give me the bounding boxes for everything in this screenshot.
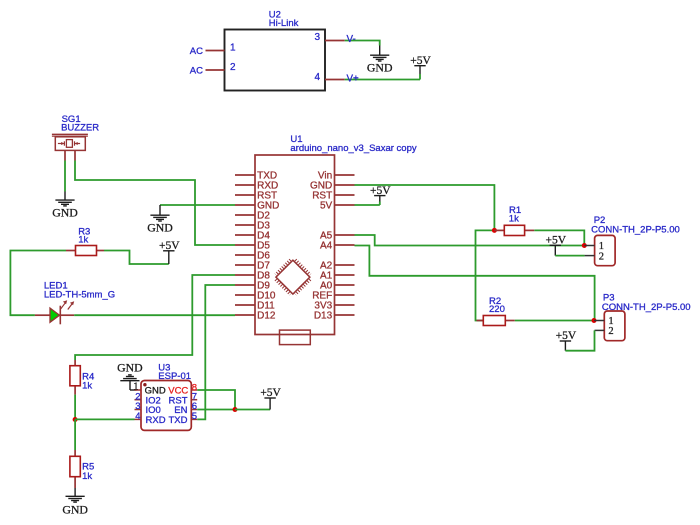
svg-text:TXD: TXD xyxy=(169,415,188,426)
module U3 designator xyxy=(158,362,191,382)
wire: U1 A5 to P2 pin1 xyxy=(355,235,585,246)
U1 right pin A0 xyxy=(320,281,355,292)
svg-text:+5V: +5V xyxy=(370,185,391,197)
resistor R2 xyxy=(477,316,515,326)
resistor R1 value labels xyxy=(509,205,521,224)
U1 left pin D7 xyxy=(235,261,270,272)
power +5V (U3) xyxy=(260,387,281,409)
U1 left pin RST xyxy=(235,191,277,202)
wire net V+: U2 pin4 to +5V xyxy=(345,79,420,81)
net label AC (pin 2) xyxy=(190,66,203,77)
U3 pin-1 marker xyxy=(143,383,146,386)
wire: node to +5V symbol xyxy=(235,409,270,411)
wire: node branch to R2 (vertical rail) xyxy=(476,230,495,320)
svg-text:CONN-TH_2P-P5.00: CONN-TH_2P-P5.00 xyxy=(591,225,680,236)
svg-text:1: 1 xyxy=(230,43,236,54)
P3 pin 1 xyxy=(594,316,614,327)
wire: R1 to P2 pin1 xyxy=(534,230,584,245)
U1 right pin GND xyxy=(310,181,355,192)
MCU U1 body xyxy=(255,155,335,335)
U1 left pin RXD xyxy=(235,181,278,192)
resistor R4 xyxy=(70,360,80,395)
svg-text:220: 220 xyxy=(489,304,505,315)
connector P3 body xyxy=(604,311,625,341)
svg-text:+5V: +5V xyxy=(159,240,180,252)
MCU U1 designator xyxy=(290,134,416,154)
U1 right pin RST xyxy=(312,191,354,202)
P2 pin 1 xyxy=(584,241,604,252)
wire: LED1 cathode to U1 D12 xyxy=(74,314,235,316)
wire: U3 EN to +5V node xyxy=(197,409,235,411)
junction node at R1 left xyxy=(492,228,497,233)
U3 pin 5 TXD xyxy=(169,411,198,426)
U1 left pin D9 xyxy=(235,281,270,292)
power +5V (P3) xyxy=(556,330,577,351)
svg-text:GND: GND xyxy=(147,221,173,235)
P3 pin 2 xyxy=(595,326,614,337)
U3 pin 8 VCC xyxy=(168,382,197,396)
buzzer SG1 symbol xyxy=(52,134,88,150)
U2 pin 1 (AC input) xyxy=(206,43,237,54)
connector P2 designator xyxy=(591,215,680,236)
wire: U1 D9 to U3 TXD xyxy=(197,285,235,419)
U2 designator label xyxy=(269,10,299,29)
U1 left pin D3 xyxy=(235,221,270,232)
svg-text:+5V: +5V xyxy=(410,55,431,67)
buzzer SG1 pin 2 xyxy=(74,150,76,160)
svg-text:D13: D13 xyxy=(314,311,333,322)
P2 pin 2 xyxy=(585,251,604,262)
U3 pin 2 IO2 xyxy=(135,391,161,406)
module U3 body xyxy=(141,381,191,431)
resistor R3 value labels xyxy=(78,227,90,246)
svg-text:GND: GND xyxy=(117,361,143,375)
U3 pin 4 RXD xyxy=(135,411,166,426)
U1 left pin D11 xyxy=(235,301,275,312)
svg-text:GND: GND xyxy=(52,206,78,220)
U1 right pin D13 xyxy=(314,311,355,322)
resistor R3 xyxy=(66,246,104,256)
junction node at P3 pin1 xyxy=(592,318,597,323)
svg-text:2: 2 xyxy=(230,62,236,73)
svg-text:AC: AC xyxy=(190,66,203,77)
svg-text:4: 4 xyxy=(314,72,320,83)
svg-text:LED-TH-5mm_G: LED-TH-5mm_G xyxy=(44,290,115,301)
U1 MCU chip diamond glyph xyxy=(274,258,313,297)
junction node R4/R5/RXD xyxy=(73,417,78,422)
U1 left pin D5 xyxy=(235,241,270,252)
resistor R2 value labels xyxy=(489,296,505,315)
U1 right pin REF xyxy=(312,291,354,302)
resistor R1 xyxy=(494,225,534,235)
U1 right pin Vin xyxy=(318,171,355,182)
U3 pin 7 RST xyxy=(169,391,198,406)
wire: U3 VCC to +5V node xyxy=(197,390,235,410)
U3 pin 6 EN xyxy=(174,401,197,416)
ground GND (U1 left) xyxy=(147,205,173,235)
wire: buzzer pin1 to ground xyxy=(64,161,66,192)
net label V- xyxy=(347,34,356,45)
buzzer SG1 designator xyxy=(61,114,99,134)
svg-text:D12: D12 xyxy=(257,311,276,322)
U1 right pin A1 xyxy=(320,271,355,282)
power +5V (U1 5V pin) xyxy=(370,185,391,205)
svg-text:5: 5 xyxy=(192,411,197,422)
ground GND (net V-) xyxy=(367,46,393,75)
wire: +5V to P2 pin2 xyxy=(555,255,584,257)
U3 pin 3 IO0 xyxy=(135,401,161,416)
wire net V-: U2 pin3 to ground xyxy=(345,41,380,46)
svg-text:5V: 5V xyxy=(320,201,333,212)
svg-text:3: 3 xyxy=(314,32,320,43)
svg-text:1k: 1k xyxy=(82,380,92,391)
U1 left pin D12 xyxy=(235,311,276,322)
svg-text:2: 2 xyxy=(599,251,604,262)
junction node at P2 pin1 xyxy=(582,243,587,248)
svg-text:V+: V+ xyxy=(347,74,360,85)
resistor R5 value labels xyxy=(82,462,94,482)
wire: R3 left to LED1 anode xyxy=(10,251,66,316)
power module U2 Hi-Link body xyxy=(225,30,326,91)
svg-text:1k: 1k xyxy=(78,234,88,245)
svg-text:1k: 1k xyxy=(82,471,92,482)
svg-text:arduino_nano_v3_Saxar copy: arduino_nano_v3_Saxar copy xyxy=(290,143,416,154)
wire: +5V to P3 pin2 xyxy=(565,330,594,350)
U1 right pin A4 xyxy=(320,241,355,252)
junction node VCC/EN/+5V xyxy=(233,407,238,412)
U2 pin 2 (AC input) xyxy=(206,62,237,73)
svg-text:+5V: +5V xyxy=(546,235,567,247)
U3 pin 1 GND xyxy=(133,382,166,397)
wire: U1 GND pin (left) to ground xyxy=(160,204,235,206)
wire: buzzer pin2 to U1 D5 xyxy=(75,161,235,246)
net label V+ xyxy=(347,74,360,85)
wire: U1 GND right pin down to R1/R2 node xyxy=(355,185,495,230)
connector P3 designator xyxy=(602,293,691,314)
connector P2 body xyxy=(595,235,616,265)
svg-text:AC: AC xyxy=(190,46,203,57)
resistor R5 xyxy=(70,450,80,488)
svg-text:4: 4 xyxy=(135,411,140,422)
U1 left pin GND xyxy=(235,201,279,212)
U1 left pin D2 xyxy=(235,211,270,222)
power +5V (P2) xyxy=(546,235,567,256)
U1 right pin 3V3 xyxy=(314,301,354,312)
LED LED1 symbol xyxy=(35,300,74,324)
wire: R3 right to +5V xyxy=(104,251,169,265)
svg-text:+5V: +5V xyxy=(556,330,577,342)
U1 left pin D10 xyxy=(235,291,276,302)
U1 right pin A2 xyxy=(320,261,355,272)
resistor R4 value labels xyxy=(82,372,94,392)
LED1 designator labels xyxy=(44,281,115,301)
wire: U1 D8 to R4 top xyxy=(75,275,235,360)
U2 pin 3 (V- output) xyxy=(314,32,344,43)
svg-text:BUZZER: BUZZER xyxy=(61,123,99,134)
wire: divider node to R5 top xyxy=(74,420,76,451)
svg-text:2: 2 xyxy=(608,326,613,337)
wire: R2 to P3 pin1 xyxy=(515,320,594,322)
svg-text:GND: GND xyxy=(62,502,88,516)
ground GND (R5) xyxy=(62,488,88,516)
U1 left pin D4 xyxy=(235,231,270,242)
svg-text:V-: V- xyxy=(347,34,356,45)
svg-text:GND: GND xyxy=(367,61,393,75)
svg-text:+5V: +5V xyxy=(260,387,281,399)
svg-text:A4: A4 xyxy=(320,241,333,252)
wire: divider node to U3 RXD xyxy=(75,418,134,420)
wire: U1 5V pin to +5V xyxy=(355,204,380,206)
U1 left pin D8 xyxy=(235,271,270,282)
wire: R4 bottom to divider node xyxy=(74,395,76,420)
svg-text:Hi-Link: Hi-Link xyxy=(269,18,299,29)
U1 right pin 5V xyxy=(320,201,355,212)
buzzer SG1 pin 1 xyxy=(64,150,66,160)
U1 left pin TXD xyxy=(235,171,277,182)
power +5V (net V+) xyxy=(410,55,431,80)
ground GND (U3 pin1, inverted) xyxy=(117,361,143,390)
power +5V (R3) xyxy=(159,240,180,264)
svg-text:RXD: RXD xyxy=(146,415,166,426)
svg-text:1k: 1k xyxy=(509,213,519,224)
U1 left pin D6 xyxy=(235,251,270,262)
U1 right pin A5 xyxy=(320,231,355,242)
net label AC (pin 1) xyxy=(190,46,203,57)
U1 bottom connector tab xyxy=(280,330,311,345)
U2 pin 4 (V+ output) xyxy=(314,72,344,83)
wire: U1 A4 to P3 pin1 xyxy=(355,246,595,321)
ground GND (buzzer) xyxy=(52,192,78,220)
